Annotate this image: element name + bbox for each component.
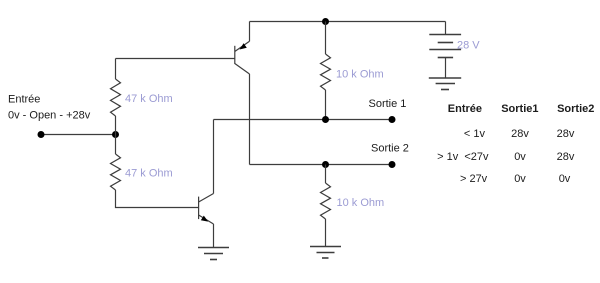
wire battery drop from rail [445, 22, 447, 35]
battery B1 plate short bottom [438, 57, 453, 59]
wire Sortie 2 horizontal line [250, 164, 393, 166]
label Entrée input [8, 94, 40, 106]
svg-text:47 k Ohm: 47 k Ohm [125, 93, 173, 105]
transistor Q2 NPN base bar [198, 197, 200, 220]
svg-text:Entrée: Entrée [8, 94, 40, 106]
resistor R1 47 k Ohm [111, 79, 121, 116]
svg-text:Sortie2: Sortie2 [557, 103, 594, 115]
svg-text:> 1v <27v: > 1v <27v [437, 151, 489, 163]
svg-text:0v: 0v [514, 173, 526, 185]
svg-text:10 k Ohm: 10 k Ohm [336, 69, 384, 81]
table header Entrée [448, 103, 482, 115]
wire left vertical upper segment [115, 59, 117, 80]
transistor Q2 emitter arrow [201, 216, 208, 222]
label Sortie 1 [369, 98, 407, 110]
wire Sortie 2 junction to R4 [325, 165, 327, 184]
label R2 value 47 k Ohm [125, 168, 173, 180]
battery B1 plate short upper [438, 42, 453, 44]
svg-text:Sortie 2: Sortie 2 [371, 143, 409, 155]
svg-text:Entrée: Entrée [448, 103, 482, 115]
wire battery to ground [445, 58, 447, 79]
wire Q1 base horizontal [116, 58, 235, 60]
svg-text:0v - Open - +28v: 0v - Open - +28v [8, 109, 91, 121]
node junction input/divider dot [112, 131, 119, 138]
transistor Q2 emitter diagonal [199, 215, 214, 224]
wire R4 to ground [325, 219, 327, 246]
svg-text:< 1v: < 1v [464, 128, 486, 140]
table row2 Sortie2 value 28v [557, 151, 575, 163]
svg-text:> 27v: > 27v [460, 173, 488, 185]
wire input Entrée horizontal [41, 134, 116, 136]
table row2 Sortie1 value 0v [514, 151, 526, 163]
transistor Q1 collector diagonal [235, 64, 250, 75]
table row1 condition < 1v [464, 128, 486, 140]
svg-text:0v: 0v [514, 151, 526, 163]
label battery value 28 V [457, 39, 480, 51]
node Sortie 1 junction dot [322, 116, 329, 123]
table row3 Sortie2 value 0v [559, 173, 571, 185]
table row2 condition > 1v <27v [437, 151, 489, 163]
node Sortie 2 terminal dot [389, 161, 396, 168]
label R4 value 10 k Ohm [337, 197, 385, 209]
wire left vertical bottom to Q2 base [116, 190, 199, 208]
label R3 value 10 k Ohm [336, 69, 384, 81]
wire left vertical middle segment [115, 116, 117, 154]
resistor R4 10 k Ohm [321, 183, 331, 219]
resistor R3 10 k Ohm [321, 54, 331, 90]
svg-text:Sortie 1: Sortie 1 [369, 98, 407, 110]
svg-text:28v: 28v [557, 128, 575, 140]
transistor Q1 emitter arrow [240, 43, 247, 49]
resistor R2 47 k Ohm [111, 154, 121, 190]
ground battery [429, 78, 461, 90]
svg-text:28v: 28v [511, 128, 529, 140]
wire top supply rail [250, 21, 446, 23]
node top rail junction dot [322, 18, 329, 25]
ground R4 [310, 247, 341, 259]
svg-text:0v: 0v [559, 173, 571, 185]
ground Q2 emitter [198, 248, 229, 260]
wire Q2 emitter vertical to ground [213, 224, 215, 248]
svg-text:10 k Ohm: 10 k Ohm [337, 197, 385, 209]
table header Sortie1 [501, 103, 538, 115]
node Sortie 1 terminal dot [389, 116, 396, 123]
label input levels 0v - Open - +28v [8, 109, 91, 121]
wire mid vertical from rail to R3 [325, 22, 327, 55]
node input terminal dot [38, 131, 45, 138]
table header Sortie2 [557, 103, 594, 115]
wire Q1 collector vertical to Sortie 2 line [249, 74, 251, 165]
table row3 Sortie1 value 0v [514, 173, 526, 185]
wire R3 to Sortie 1 line [325, 90, 327, 120]
svg-text:28 V: 28 V [457, 39, 480, 51]
label Sortie 2 [371, 143, 409, 155]
battery B1 plate long top [429, 34, 461, 36]
wire Q2 collector vertical from Sortie 1 line [213, 120, 215, 194]
table row1 Sortie2 value 28v [557, 128, 575, 140]
svg-text:28v: 28v [557, 151, 575, 163]
table row3 condition > 27v [460, 173, 488, 185]
label R1 value 47 k Ohm [125, 93, 173, 105]
wire Q1 emitter vertical to rail [249, 22, 251, 42]
svg-text:47 k Ohm: 47 k Ohm [125, 168, 173, 180]
node Sortie 2 junction dot [322, 161, 329, 168]
svg-text:Sortie1: Sortie1 [501, 103, 538, 115]
transistor Q2 collector diagonal [199, 194, 214, 203]
wire Sortie 1 horizontal line [214, 119, 393, 121]
transistor Q1 emitter diagonal [235, 41, 250, 51]
transistor Q1 PNP base bar [234, 46, 236, 64]
battery B1 plate long lower [429, 49, 461, 51]
table row1 Sortie1 value 28v [511, 128, 529, 140]
